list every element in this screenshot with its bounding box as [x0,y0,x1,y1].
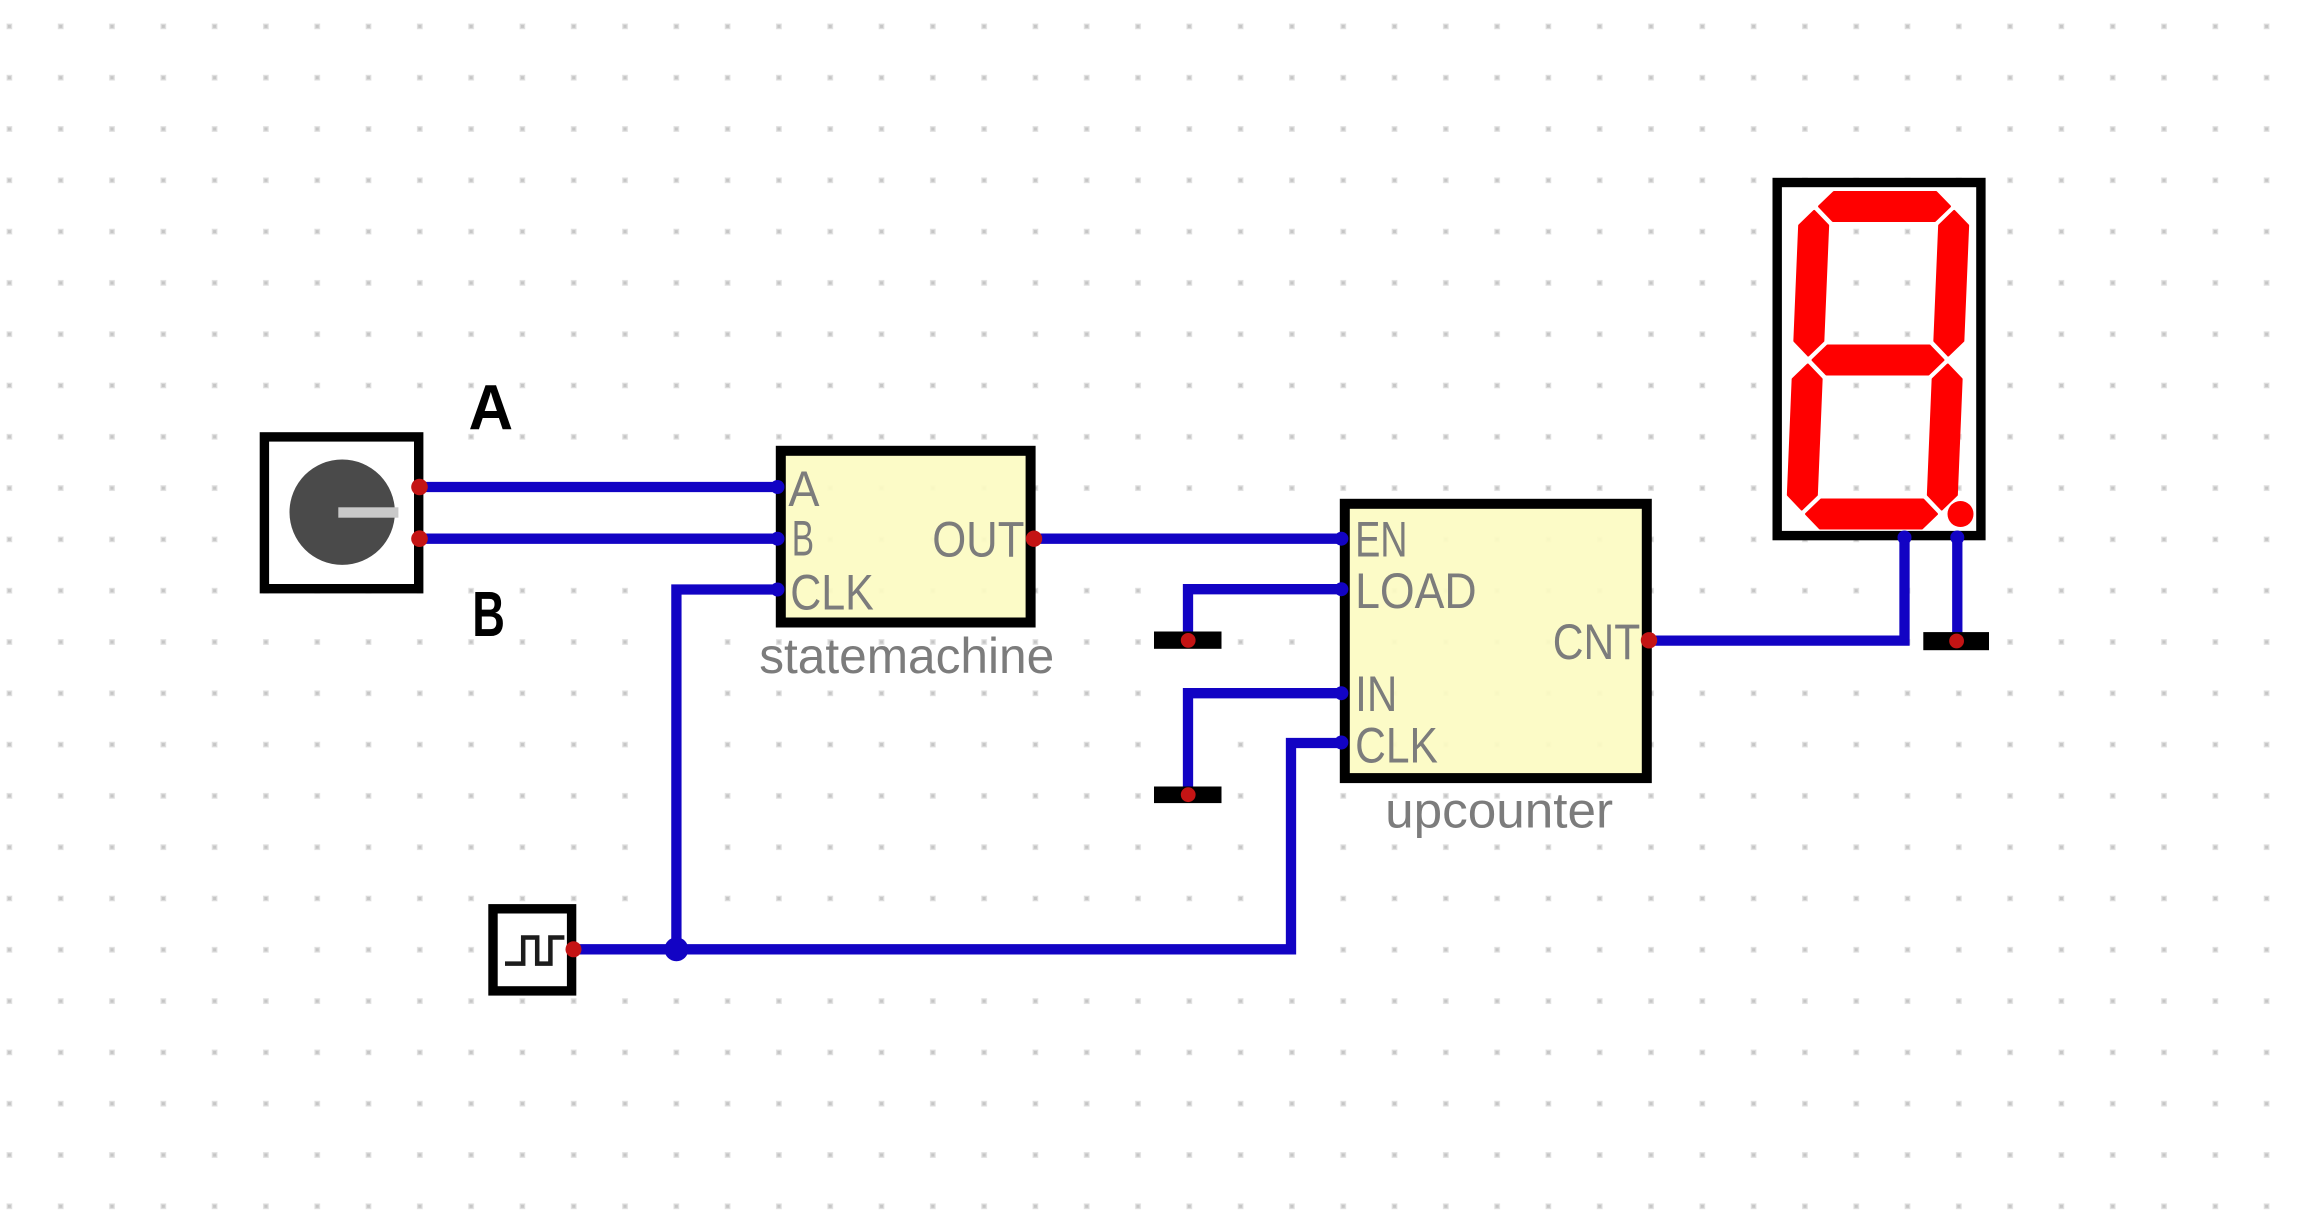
segment F [1795,211,1828,355]
statemachine pin OUT dot [1026,531,1042,547]
wire net LOAD: upcounter LOAD to ground G1 [1188,589,1341,640]
decimal point [1948,501,1974,527]
svg-text:LOAD: LOAD [1355,563,1477,619]
upcounter pin CLK dot [1334,736,1348,750]
rotary encoder [264,437,418,589]
statemachine U1 [781,451,1031,623]
segment C [1928,365,1961,509]
svg-text:B: B [472,578,505,650]
wire net CLK: clock to junction to statemachine CLK and upcounter CLK [574,743,1342,949]
svg-text:CLK: CLK [790,565,874,621]
statemachine pin B dot [771,532,785,546]
svg-text:B: B [792,511,814,567]
wire net B: encoder B to statemachine B [420,534,778,544]
upcounter pin LOAD dot [1334,582,1348,596]
wire net OUT: statemachine OUT to upcounter EN [1034,534,1341,544]
wire display cathode to ground G3 [1952,538,1962,642]
ground G3 [1923,632,1989,650]
svg-text:statemachine: statemachine [759,628,1054,684]
wire junction [664,937,688,961]
clock output dot [566,941,582,957]
clock source [493,909,572,991]
svg-text:EN: EN [1355,511,1408,567]
ground G1 [1154,632,1222,649]
svg-text:OUT: OUT [932,512,1024,568]
display pin 2 dot [1950,531,1964,545]
statemachine pin CLK dot [771,583,785,597]
upcounter pin EN dot [1334,532,1348,546]
segment G [1813,346,1943,374]
seven segment display [1777,183,1981,536]
upcounter pin IN dot [1334,686,1348,700]
statemachine pin A dot [771,480,785,494]
wire net IN: upcounter IN to ground G2 [1188,693,1341,795]
encoder pin A dot [411,479,428,496]
segment A [1819,192,1949,221]
segment B [1935,211,1968,355]
svg-text:A: A [788,461,820,517]
ground G2 [1154,787,1222,804]
segment E [1788,365,1821,509]
svg-text:A: A [469,372,514,444]
upcounter pin CNT dot [1641,632,1657,648]
encoder pin B dot [411,530,428,547]
svg-text:CLK: CLK [1355,718,1438,774]
display pin 1 dot [1898,531,1912,545]
segment D [1806,500,1936,528]
wire net CNT: upcounter CNT to display [1649,538,1905,641]
svg-text:IN: IN [1355,666,1397,722]
upcounter U2 [1345,504,1647,778]
svg-text:upcounter: upcounter [1385,782,1613,838]
wire net A: encoder A to statemachine A [420,482,778,492]
svg-text:CNT: CNT [1553,614,1641,670]
